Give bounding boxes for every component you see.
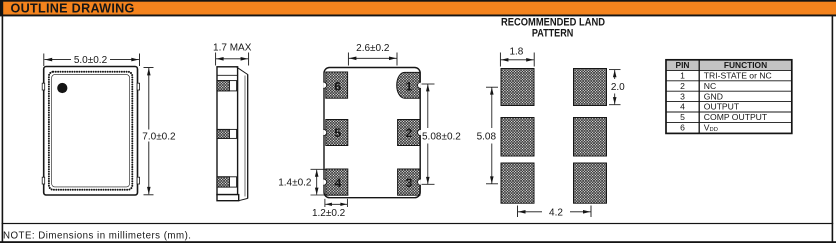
svg-text:1.8: 1.8 (509, 46, 523, 57)
dimension 2.0 (609, 70, 621, 105)
page frame bottom border (0, 241, 836, 243)
note separator line (2, 223, 834, 224)
svg-text:1.2±0.2: 1.2±0.2 (312, 208, 346, 219)
svg-text:4: 4 (680, 102, 685, 112)
svg-text:4: 4 (334, 176, 341, 190)
top view package outline (44, 67, 138, 196)
svg-text:TRI-STATE or NC: TRI-STATE or NC (704, 71, 772, 81)
side view top-right chamfer (236, 67, 248, 75)
top view seal ring (dotted band) (49, 72, 132, 190)
svg-text:5: 5 (334, 126, 341, 140)
svg-text:5.08±0.2: 5.08±0.2 (422, 132, 461, 143)
svg-text:1.7 MAX: 1.7 MAX (213, 42, 252, 53)
dimension 4.2 (518, 206, 592, 218)
dimension 5.08 (land) (486, 87, 498, 184)
svg-text:GND: GND (704, 91, 723, 101)
svg-text:3: 3 (680, 91, 685, 101)
table function cells (704, 71, 772, 134)
svg-text:3: 3 (405, 176, 412, 190)
svg-text:FUNCTION: FUNCTION (724, 60, 767, 70)
svg-text:COMP OUTPUT: COMP OUTPUT (704, 112, 768, 122)
table header fill (667, 60, 791, 70)
table grid lines (666, 60, 792, 134)
side view bottom slab (217, 195, 239, 201)
svg-text:7.0±0.2: 7.0±0.2 (142, 131, 176, 142)
svg-text:1.4±0.2: 1.4±0.2 (278, 178, 312, 189)
dimension 7.0±0.2 (144, 68, 154, 195)
side view castellation pad middle (217, 129, 237, 138)
land pattern title (501, 16, 605, 39)
svg-text:NC: NC (704, 81, 716, 91)
side view castellation pad top (217, 81, 237, 91)
land pad bottom-right (574, 163, 607, 203)
dimension 5.0±0.2 (44, 54, 140, 67)
table outer border (666, 60, 792, 134)
pad 5 (326, 120, 348, 146)
land pad mid-right (574, 118, 607, 157)
svg-text:5: 5 (680, 112, 685, 122)
svg-text:OUTLINE DRAWING: OUTLINE DRAWING (11, 2, 135, 16)
land pad top-left (501, 69, 534, 106)
svg-text:PIN: PIN (676, 60, 690, 70)
pad 3 (398, 169, 420, 195)
table pin numbers (680, 71, 685, 133)
side view body front face (217, 67, 238, 195)
pad 2 (398, 120, 420, 146)
svg-text:6: 6 (334, 80, 341, 94)
svg-text:2.0: 2.0 (611, 82, 625, 93)
svg-text:VDD: VDD (704, 123, 718, 134)
side view castellation pad bottom (217, 177, 237, 187)
svg-text:1: 1 (405, 80, 412, 94)
svg-text:RECOMMENDED LAND: RECOMMENDED LAND (501, 16, 605, 28)
svg-text:6: 6 (680, 123, 685, 133)
dimension 1.2±0.2 (325, 199, 348, 207)
svg-text:5.08: 5.08 (477, 132, 497, 143)
svg-text:2: 2 (680, 81, 685, 91)
svg-text:1: 1 (680, 71, 685, 81)
side view right face edge (247, 74, 249, 198)
svg-text:OUTPUT: OUTPUT (704, 102, 740, 112)
svg-text:PATTERN: PATTERN (532, 28, 574, 40)
page frame left border (2, 16, 4, 243)
svg-text:4.2: 4.2 (549, 208, 563, 219)
svg-text:NOTE: Dimensions in millimeter: NOTE: Dimensions in millimeters (mm). (3, 231, 191, 242)
pad numbers (334, 80, 412, 190)
top view inner cavity line (52, 75, 130, 187)
side view inner right edge (244, 76, 246, 197)
page frame right border (832, 16, 834, 242)
bottom view package outline (324, 68, 420, 198)
header band (0, 0, 836, 16)
top view corner castellation bumps (42, 83, 139, 184)
pad 4 (326, 169, 348, 195)
side view bottom-right chamfer (239, 198, 248, 200)
dimension 5.08±0.2 (422, 84, 435, 184)
table header text (676, 60, 768, 70)
land pad top-right (574, 69, 607, 106)
svg-text:5.0±0.2: 5.0±0.2 (74, 55, 108, 66)
pad 1 (rounded) (397, 72, 420, 98)
land pad bottom-left (501, 163, 534, 203)
svg-text:2: 2 (405, 126, 412, 140)
side view lid seam line (217, 74, 238, 76)
dimension 1.4±0.2 (311, 169, 349, 195)
pin 1 index dot (57, 83, 67, 93)
pad 6 (326, 72, 348, 98)
svg-text:2.6±0.2: 2.6±0.2 (356, 43, 390, 54)
land pad mid-left (501, 118, 534, 157)
